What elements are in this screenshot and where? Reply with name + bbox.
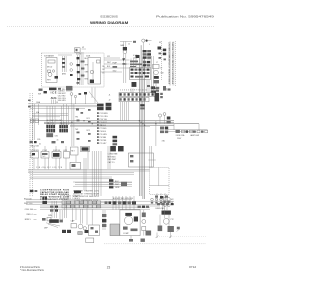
defrost thermostat cluster bottom-left [42, 218, 63, 230]
board edge connector row J2 [119, 98, 149, 102]
svg-text:ARM: ARM [62, 73, 66, 76]
run capacitor cluster [62, 209, 89, 235]
svg-text:41: 41 [57, 140, 59, 142]
relay K2 connector block [143, 61, 150, 66]
bottom band labels mid [60, 195, 111, 204]
thermistor pair marks [163, 49, 166, 56]
connector block right of J2 [155, 90, 163, 102]
water valve box right [150, 168, 170, 202]
dispenser connector block J5 [59, 125, 68, 133]
ice maker mold heater box [46, 58, 58, 83]
pin numbers above J1 [120, 90, 147, 92]
svg-text:P5 GRN: P5 GRN [100, 134, 108, 136]
start device column right of compressor [142, 210, 146, 236]
svg-text:N.O.: N.O. [32, 155, 36, 157]
svg-text:* Non-Illustrated Parts: * Non-Illustrated Parts [20, 269, 45, 272]
evap fan feed dark tap [136, 55, 140, 58]
svg-text:FREEZER COMPARTMENT: FREEZER COMPARTMENT [168, 41, 171, 84]
svg-text:EI23BC56IS: EI23BC56IS [101, 14, 118, 18]
connector to bus vertical wires [121, 102, 129, 121]
svg-text:0712: 0712 [189, 265, 196, 269]
bottom dotted separator line [104, 236, 206, 243]
evaporator cluster labels [130, 55, 148, 67]
wires icemaker box to evap [101, 56, 130, 72]
fuse row feed wire [162, 132, 197, 143]
svg-text:J4A 1 2 3: J4A 1 2 3 [47, 122, 54, 125]
ice dispenser dark label A [51, 91, 57, 104]
small box left of dotted line [86, 238, 94, 243]
svg-text:23: 23 [107, 265, 111, 269]
bottom-left condenser cluster rows [109, 179, 127, 189]
mid bus lines [28, 169, 134, 184]
svg-text:J2: J2 [109, 100, 111, 102]
svg-text:BLK WHT RED GRN ORG: BLK WHT RED GRN ORG [113, 198, 134, 200]
svg-text:01: 01 [109, 104, 111, 106]
compressor label dark block [40, 189, 69, 201]
bottom mid dense cluster [102, 201, 136, 230]
thermistor small box [158, 47, 162, 50]
svg-text:LT SW: LT SW [42, 150, 47, 152]
svg-text:MTR BLK: MTR BLK [108, 156, 117, 158]
dispenser board block [46, 133, 53, 137]
harness tap marks [140, 104, 144, 109]
svg-text:P10 YEL: P10 YEL [100, 119, 107, 121]
run capacitor capsules [161, 197, 170, 207]
svg-text:COMP HARNESS 120V: COMP HARNESS 120V [74, 199, 99, 202]
svg-text:SW: SW [38, 94, 41, 96]
ice maker feed connector above box [75, 47, 87, 52]
medium rows right of compressor label [73, 190, 100, 199]
sensor blobs below connector row [113, 136, 118, 146]
svg-text:WHT: WHT [85, 65, 89, 67]
lower bus extension right [26, 186, 174, 209]
svg-text:BLK 100: BLK 100 [24, 198, 33, 200]
svg-text:COND FAN: COND FAN [108, 153, 118, 156]
ground strap gray box [110, 224, 120, 236]
svg-text:J5A 1 2 3: J5A 1 2 3 [60, 122, 67, 125]
mid vertical drops [84, 151, 101, 196]
svg-text:FAN: FAN [121, 44, 125, 47]
svg-text:61: 61 [39, 143, 41, 145]
heater loop wires bottom-left [60, 201, 67, 222]
dispenser wire list text [58, 89, 67, 102]
right bits near stack [177, 227, 180, 230]
freezer partition dashed line [159, 41, 162, 80]
svg-text:13: 13 [56, 102, 58, 104]
svg-text:ICE: ICE [51, 91, 57, 95]
terminal strip row 1 [62, 201, 101, 204]
svg-text:TH2: TH2 [75, 129, 78, 131]
svg-text:AUG: AUG [51, 96, 57, 100]
svg-text:N.C.: N.C. [43, 156, 47, 158]
thermistor leads top-left of board [70, 92, 87, 104]
svg-text:P7 RED: P7 RED [100, 128, 107, 130]
svg-text:1 2 3 4 5 6 7 8 9 10 11 12: 1 2 3 4 5 6 7 8 9 10 11 12 [120, 90, 147, 92]
left margin wire legend [24, 198, 37, 221]
switch row drops to bus [34, 158, 66, 169]
evap side vertical strokes [147, 56, 154, 93]
small dark connector pair left [42, 197, 47, 204]
water valve feed wires [134, 146, 159, 186]
icemaker output pin texts [102, 65, 105, 74]
defrost terminator block [160, 127, 168, 134]
svg-text:CN5: CN5 [37, 139, 40, 141]
ice maker lamp symbols [70, 63, 73, 76]
bottom mid-left wire cluster [48, 201, 58, 218]
leader texts left bus [28, 100, 58, 114]
defrost limiter flag [142, 39, 152, 58]
svg-text:BRN 5: BRN 5 [25, 219, 32, 221]
svg-text:P11 ORG: P11 ORG [100, 116, 109, 118]
freezer section extra marks [155, 53, 166, 90]
svg-text:Publication No. 5995476549: Publication No. 5995476549 [156, 14, 214, 18]
small marks above bottom dotted line [129, 236, 145, 242]
svg-text:DISP SW: DISP SW [53, 150, 61, 152]
right component stack: overload protector [156, 201, 180, 238]
defrost cluster dark mark [74, 191, 81, 194]
condenser fan label rows [108, 146, 124, 164]
svg-text:P9 WHT: P9 WHT [100, 122, 108, 124]
bus label row [30, 166, 63, 192]
svg-text:BLK WHT ORG RED: BLK WHT ORG RED [47, 120, 64, 122]
evaporator connector rows [130, 68, 151, 80]
mid-top connector vertical stubs [131, 57, 150, 68]
svg-text:522: 522 [107, 56, 110, 58]
water valve solenoid symbols [151, 198, 175, 204]
svg-text:WHT: WHT [107, 62, 111, 64]
svg-text:RED 4: RED 4 [27, 214, 34, 216]
svg-text:FRESH FOOD SECTION: FRESH FOOD SECTION [173, 41, 175, 84]
wires icemaker to harness [66, 86, 73, 93]
ice maker dashed enclosure [42, 53, 105, 87]
main control board pin labels column [97, 112, 108, 145]
svg-text:LAMP 60W: LAMP 60W [190, 134, 199, 137]
terminal strip row 2 [62, 205, 101, 208]
svg-text:ORG 300: ORG 300 [25, 209, 34, 211]
wire drops right edge [177, 124, 199, 130]
vertical label column freezer section [168, 41, 175, 86]
svg-text:TH1: TH1 [75, 117, 78, 119]
svg-text:GRN: GRN [115, 187, 120, 189]
svg-text:CAP 2.5: CAP 2.5 [108, 161, 115, 164]
svg-text:3162: 3162 [113, 71, 117, 73]
dispenser connector block J4 [46, 125, 55, 133]
svg-text:MOLD: MOLD [47, 67, 53, 69]
switch row boxes [31, 147, 90, 159]
svg-text:LT: LT [156, 62, 158, 64]
harness drop cluster above compressor box [113, 196, 149, 210]
main harness bus [30, 121, 199, 127]
svg-text:SW: SW [161, 73, 164, 75]
svg-text:OVERLOAD: OVERLOAD [155, 207, 165, 210]
board edge connector row J1 [119, 93, 158, 97]
lower bus lines [26, 182, 150, 208]
defrost heater block [131, 82, 136, 93]
relay coil box left [70, 162, 81, 169]
svg-text:P6 BLU: P6 BLU [100, 131, 107, 133]
right stack extra bits [155, 203, 175, 226]
svg-text:P3 PNK: P3 PNK [100, 140, 107, 142]
svg-text:J1: J1 [109, 95, 111, 97]
relay K1 connector block [143, 50, 151, 59]
extra harness drops [73, 208, 88, 230]
left margin vertical dashed wires [30, 93, 32, 197]
harness vertical bundle [139, 45, 144, 199]
connector labels above dispenser blocks [30, 120, 67, 147]
svg-text:RC1: RC1 [87, 118, 90, 120]
fresh food light and fuse row right [156, 121, 208, 146]
svg-text:DOOR SW: DOOR SW [31, 150, 40, 152]
svg-text:P12 BRN: P12 BRN [100, 113, 109, 115]
junction dots on main bus [71, 120, 156, 126]
svg-text:RC2: RC2 [87, 130, 90, 132]
marks above dotted line [146, 231, 152, 236]
svg-text:CN2: CN2 [55, 136, 58, 138]
ice maker thermostat box [88, 58, 101, 85]
left lower marks row [37, 139, 64, 145]
ticks above switch row [34, 146, 66, 152]
svg-text:P2 GRY: P2 GRY [100, 143, 108, 145]
door switch cluster left of icemaker [38, 89, 47, 96]
small resistor row left [30, 119, 56, 143]
compressor enclosure box [120, 210, 140, 236]
svg-text:L: L [149, 44, 150, 46]
svg-text:12: 12 [128, 44, 130, 46]
top stub wires above fan [120, 41, 136, 47]
ice maker shutoff arm ladder [62, 56, 66, 76]
svg-text:13B 41A 52C 61D 72E: 13B 41A 52C 61D 72E [36, 166, 63, 169]
freezer door harness verticals [76, 146, 110, 169]
ice maker top edge labels [44, 55, 91, 58]
vertical drops from buses [33, 104, 74, 146]
svg-text:WHT 200: WHT 200 [24, 203, 33, 205]
svg-text:56E GRN: 56E GRN [58, 100, 66, 102]
thermal fuse pair [158, 113, 170, 124]
freezer light assembly [153, 65, 164, 89]
ice maker fill cup label [49, 88, 66, 91]
svg-text:FUSE 15A: FUSE 15A [176, 134, 185, 137]
upper bus wires left [28, 104, 97, 117]
J1 left pin labels [109, 95, 111, 106]
thermistor bits left of board [75, 109, 91, 142]
switch row top labels [31, 150, 68, 158]
svg-text:COMP: COMP [123, 233, 129, 235]
start relay box [89, 209, 100, 236]
ice maker motor M1 [76, 52, 89, 85]
svg-text:ICE MAKER: ICE MAKER [44, 55, 55, 58]
svg-text:P4 TAN: P4 TAN [100, 136, 107, 139]
controls box mid right [128, 153, 156, 167]
dotted rule under header [7, 26, 214, 28]
svg-text:RED WHT: RED WHT [108, 159, 118, 161]
freezer fan motor top-mid [113, 44, 128, 83]
freezer lamp connector dark row [151, 86, 171, 93]
thermostat drop diagonal wire [89, 88, 98, 104]
svg-text:522A: 522A [76, 53, 81, 56]
main board connector dark blobs [97, 103, 111, 110]
svg-text:WIRING DIAGRAM: WIRING DIAGRAM [90, 20, 128, 25]
